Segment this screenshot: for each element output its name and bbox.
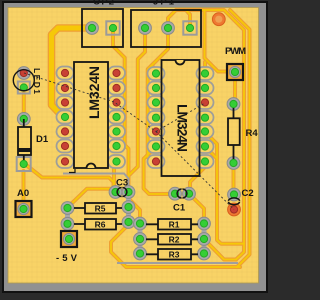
svg-text:R2: R2 [169, 235, 180, 245]
svg-text:R6: R6 [95, 219, 106, 229]
svg-text:C3: C3 [116, 178, 128, 189]
svg-text:R3: R3 [169, 250, 180, 260]
svg-text:OP2: OP2 [93, 0, 114, 8]
svg-text:LM324N: LM324N [86, 66, 102, 119]
svg-text:R1: R1 [169, 220, 180, 230]
svg-text:R5: R5 [95, 203, 106, 213]
svg-text:C1: C1 [173, 203, 186, 214]
svg-text:R4: R4 [246, 128, 259, 139]
svg-text:LED1: LED1 [32, 68, 42, 94]
svg-text:PWM: PWM [225, 46, 246, 57]
svg-text:LM324N: LM324N [175, 104, 191, 152]
svg-text:A0: A0 [17, 188, 29, 199]
svg-text:D1: D1 [36, 134, 49, 145]
svg-text:JP1: JP1 [153, 0, 175, 8]
svg-text:C2: C2 [242, 188, 254, 199]
